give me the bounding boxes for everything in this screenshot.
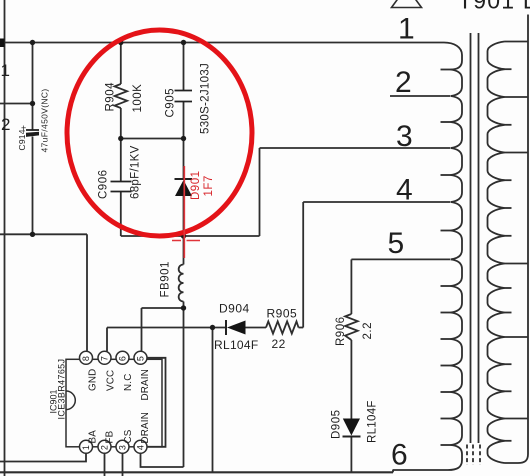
svg-text:4: 4 (136, 445, 146, 450)
svg-text:6: 6 (118, 356, 128, 361)
svg-text:3: 3 (396, 120, 413, 153)
svg-text:3: 3 (118, 445, 128, 450)
svg-text:2: 2 (100, 445, 110, 450)
svg-text:6: 6 (391, 439, 408, 472)
svg-text:5: 5 (388, 227, 405, 260)
svg-text:RL104F: RL104F (214, 338, 259, 352)
svg-text:T901 L: T901 L (458, 0, 530, 14)
svg-text:8: 8 (81, 356, 91, 361)
svg-text:VCC: VCC (106, 370, 117, 391)
svg-text:22: 22 (272, 337, 286, 351)
svg-text:CS: CS (123, 429, 134, 443)
svg-text:68pF/1KV: 68pF/1KV (130, 145, 142, 199)
svg-text:R904: R904 (105, 82, 117, 112)
svg-text:1: 1 (81, 445, 91, 450)
svg-text:1: 1 (398, 13, 415, 46)
svg-text:C905: C905 (165, 88, 177, 118)
svg-text:1: 1 (1, 61, 10, 80)
svg-text:ICE3BR4765J: ICE3BR4765J (57, 359, 67, 420)
svg-text:2: 2 (1, 115, 10, 134)
svg-text:BA: BA (88, 430, 99, 444)
svg-text:D901: D901 (190, 171, 202, 201)
svg-text:R905: R905 (267, 307, 298, 321)
svg-text:R906: R906 (335, 317, 347, 347)
svg-text:7: 7 (100, 356, 110, 361)
svg-text:C906: C906 (98, 170, 110, 200)
svg-text:2: 2 (395, 66, 412, 99)
svg-text:N.C: N.C (123, 374, 134, 391)
svg-text:D905: D905 (331, 410, 343, 440)
svg-text:4: 4 (396, 174, 413, 207)
svg-text:100K: 100K (132, 84, 144, 113)
svg-text:5: 5 (136, 356, 146, 361)
svg-text:DRAIN: DRAIN (140, 369, 151, 400)
svg-text:DRAIN: DRAIN (140, 412, 151, 443)
svg-text:530S-2J103J: 530S-2J103J (200, 63, 212, 134)
svg-text:47uF/450V(NC): 47uF/450V(NC) (40, 88, 50, 152)
svg-text:+: + (21, 123, 26, 133)
svg-text:GND: GND (88, 369, 99, 391)
svg-text:RL104F: RL104F (367, 400, 379, 443)
svg-text:FB: FB (105, 430, 116, 443)
svg-text:1F7: 1F7 (203, 175, 215, 196)
svg-text:FB901: FB901 (160, 261, 172, 297)
svg-text:D904: D904 (219, 302, 250, 316)
svg-text:2.2: 2.2 (362, 322, 374, 340)
